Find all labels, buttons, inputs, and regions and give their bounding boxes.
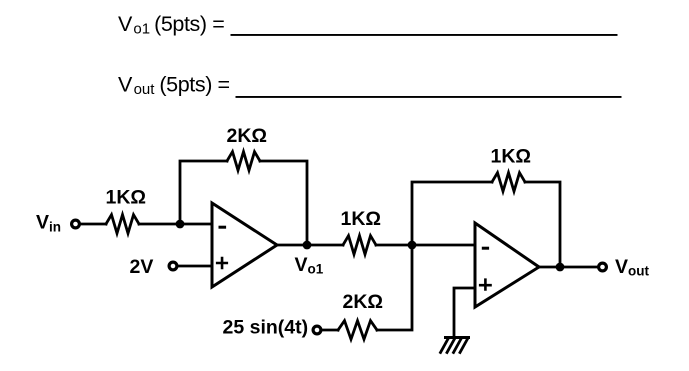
svg-text:2V: 2V [130,256,154,278]
wire R4 down to node D [525,182,560,267]
op-amp U1 [212,203,277,287]
svg-text:25 sin(4t): 25 sin(4t) [223,317,309,339]
wire R1 to op-amp U1 inverting input through node A [139,223,212,226]
Vout answer blank line [236,96,622,98]
svg-text:1KΩ: 1KΩ [491,146,532,168]
svg-text:V: V [118,72,133,96]
wire R5 up to node C [377,245,412,330]
wire node A up to feedback R2 [180,161,227,224]
node D junction dot [556,263,565,272]
op-amp U2 [475,223,539,307]
wire Vin to R1 [81,223,107,226]
wire U2 non-inverting input to ground [454,288,475,337]
svg-text:2KΩ: 2KΩ [227,125,268,147]
Vo1 answer blank line [231,34,618,36]
resistor R2 2K feedback [227,152,260,171]
svg-text:V: V [118,12,133,36]
U1 minus sign [219,226,227,229]
wire node C up to feedback R4 [412,182,492,245]
svg-text:1KΩ: 1KΩ [341,208,382,230]
svg-text:1KΩ: 1KΩ [106,187,147,209]
resistor R3 1K [343,236,376,255]
resistor R1 1K [106,215,139,234]
svg-text:(5pts) =: (5pts) = [159,72,229,96]
svg-text:2KΩ: 2KΩ [343,291,384,313]
resistor R5 2K [338,321,377,340]
svg-text:o1: o1 [133,21,150,38]
ground symbol [441,338,469,353]
U2 minus sign [482,247,489,250]
U1 plus sign [216,257,228,269]
wire 2V to op-amp U1 non-inverting input [178,265,212,268]
terminal 25sin4t [313,326,321,334]
wire U2 output to Vout terminal through node D [539,266,598,269]
svg-text:out: out [134,81,156,98]
U2 plus sign [479,278,492,290]
resistor R4 1K feedback [492,173,525,192]
wire U1 output to R3 through node B [277,244,343,247]
node A junction dot [176,220,185,229]
wire 25sin4t to R5 [322,329,338,332]
node C junction dot [408,241,417,250]
terminal 2V [169,262,177,270]
terminal Vin [72,220,80,228]
wire R2 down to node B [260,161,307,245]
terminal Vout [599,263,607,271]
wire R3 to op-amp U2 inverting input through node C [376,244,475,247]
node B junction dot [303,241,312,250]
svg-text:(5pts) =: (5pts) = [154,12,224,36]
